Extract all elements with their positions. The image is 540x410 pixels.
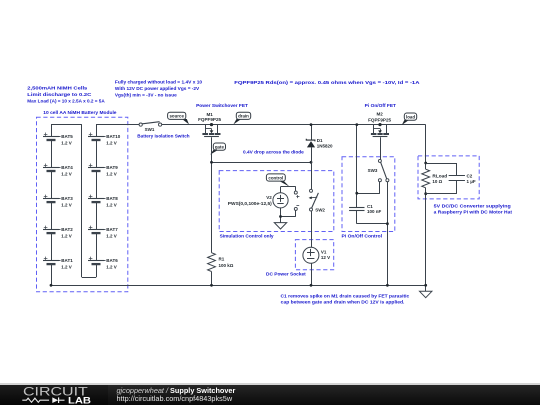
node SW3/C1 — [355, 192, 358, 195]
wire SW2 to V1 — [311, 211, 313, 247]
svg-text:PWS(0,0,100e-12,5): PWS(0,0,100e-12,5) — [228, 201, 273, 206]
flag control — [279, 181, 290, 187]
svg-text:control: control — [268, 175, 283, 180]
svg-text:1.2 V: 1.2 V — [106, 140, 117, 145]
svg-text:D1: D1 — [317, 138, 323, 143]
ground symbol main — [420, 291, 432, 297]
wire ground rail — [51, 285, 426, 287]
svg-text:Simulation Control only: Simulation Control only — [220, 234, 274, 239]
svg-text:1.2 V: 1.2 V — [61, 202, 72, 207]
svg-text:BAT4: BAT4 — [61, 165, 73, 170]
svg-text:12 V: 12 V — [321, 255, 330, 260]
wire rail corner down to RLoad — [425, 125, 427, 292]
svg-text:1.2 V: 1.2 V — [61, 171, 72, 176]
box: simulation control — [219, 171, 334, 232]
svg-text:Limit discharge to 0.2C: Limit discharge to 0.2C — [27, 92, 92, 97]
svg-text:BAT1: BAT1 — [61, 258, 73, 263]
svg-text:10 cell AA NiMH Battery Module: 10 cell AA NiMH Battery Module — [43, 110, 117, 115]
wire M1 gate down — [211, 137, 213, 252]
svg-text:2,500mAH NiMH Cells: 2,500mAH NiMH Cells — [27, 85, 87, 90]
capacitor C1 100nF — [349, 204, 381, 214]
svg-text:BAT3: BAT3 — [61, 196, 73, 201]
battery BAT9 — [88, 164, 118, 177]
svg-text:Pi On/Off Control: Pi On/Off Control — [342, 234, 383, 239]
svg-text:C1: C1 — [367, 204, 373, 209]
wire battery right column — [96, 125, 98, 261]
bar url — [117, 394, 233, 403]
svg-text:DC Power Socket: DC Power Socket — [266, 271, 306, 276]
wire R1 to ground rail — [211, 272, 213, 286]
battery BAT2 — [43, 226, 73, 239]
wire V1 to ground rail — [311, 263, 313, 285]
node C1 bottom — [386, 222, 389, 225]
switch SW3 — [368, 159, 389, 181]
svg-text:load: load — [406, 114, 415, 119]
ground V2 — [274, 223, 286, 229]
flag source — [182, 119, 189, 124]
svg-text:BAT6: BAT6 — [106, 258, 118, 263]
capacitor C2 1uF — [449, 173, 476, 184]
svg-text:BAT9: BAT9 — [106, 165, 118, 170]
bottom bar — [0, 385, 540, 405]
wire M2 gate to SW3 — [380, 137, 382, 159]
svg-text:M2: M2 — [376, 111, 383, 116]
node RLoad top — [424, 162, 427, 165]
svg-text:With 12V DC power applied Vgs: With 12V DC power applied Vgs = -2V — [115, 86, 200, 91]
svg-text:Battery Isolation Switch: Battery Isolation Switch — [137, 134, 189, 139]
box: DC/DC converter — [418, 156, 479, 199]
flag load — [402, 120, 410, 125]
svg-text:BAT7: BAT7 — [106, 227, 118, 232]
flag gate — [210, 150, 218, 155]
box: Pi on/off control — [342, 157, 395, 232]
svg-text:BAT2: BAT2 — [61, 227, 73, 232]
node gate/anode junctions — [210, 161, 213, 164]
svg-text:1 µF: 1 µF — [467, 179, 476, 184]
svg-text:SW1: SW1 — [145, 127, 155, 132]
node V2 bottom — [279, 215, 282, 218]
svg-text:BAT8: BAT8 — [106, 196, 118, 201]
wire top rail SW1 to corner — [162, 124, 426, 126]
wire gate to D1 anode — [212, 162, 312, 164]
bar title — [117, 387, 236, 394]
svg-text:RLoad: RLoad — [432, 173, 447, 178]
source V2 — [228, 193, 288, 208]
svg-text:5V DC/DC Converter supplying: 5V DC/DC Converter supplying — [434, 204, 511, 209]
battery BAT8 — [88, 195, 118, 208]
wire C1 bottom — [357, 211, 388, 224]
note: DC/DC converter — [434, 204, 513, 215]
svg-text:C2: C2 — [467, 173, 473, 178]
svg-text:R1: R1 — [219, 256, 225, 261]
box: battery module — [37, 117, 128, 292]
svg-text:gate: gate — [215, 144, 225, 149]
note: charge/Vgs — [115, 79, 203, 97]
svg-text:V2: V2 — [266, 195, 272, 200]
battery BAT1 — [43, 257, 73, 270]
wire SW3 right throw down — [387, 182, 389, 286]
transistor M1 FQPF9P25 — [198, 112, 221, 136]
svg-text:a Raspberry Pi with DC Motor H: a Raspberry Pi with DC Motor Hat — [434, 210, 513, 215]
svg-text:Power Switchover FET: Power Switchover FET — [196, 103, 248, 108]
battery BAT7 — [88, 226, 118, 239]
wire rail to D1 — [311, 125, 313, 140]
svg-text:1.2 V: 1.2 V — [106, 171, 117, 176]
wire V2 bottom loop — [281, 208, 296, 223]
svg-text:BAT10: BAT10 — [106, 134, 120, 139]
node rail/C1 — [355, 123, 358, 126]
svg-text:1.2 V: 1.2 V — [61, 264, 72, 269]
battery BAT5 — [43, 133, 73, 146]
svg-text:1.2 V: 1.2 V — [106, 264, 117, 269]
flag drain — [233, 119, 241, 124]
svg-text:V1: V1 — [321, 249, 327, 254]
svg-text:100 kΩ: 100 kΩ — [219, 263, 234, 268]
svg-text:LAB: LAB — [68, 395, 91, 405]
wire D1 to SW2 — [311, 147, 313, 189]
wire C2 branch — [426, 163, 457, 194]
switch SW2 (voltage controlled) — [309, 189, 326, 212]
svg-text:C1 removes spike on M1 drain c: C1 removes spike on M1 drain caused by F… — [281, 294, 410, 299]
resistor RLoad 10ohm — [422, 169, 448, 188]
battery BAT10 — [88, 133, 121, 146]
battery BAT4 — [43, 164, 73, 177]
svg-text:FQPF9P25: FQPF9P25 — [198, 117, 221, 122]
svg-text:10 Ω: 10 Ω — [432, 179, 442, 184]
svg-text:FQPF9P25 Rds(on) = approx. 0.4: FQPF9P25 Rds(on) = approx. 0.45 ohms whe… — [234, 80, 420, 85]
wire series link — [82, 125, 97, 278]
svg-text:1.2 V: 1.2 V — [106, 202, 117, 207]
svg-text:1.2 V: 1.2 V — [61, 233, 72, 238]
battery BAT6 — [88, 257, 118, 270]
svg-text:1.2 V: 1.2 V — [61, 140, 72, 145]
svg-text:Max Load (A) = 10 x 2.5A x 0.2: Max Load (A) = 10 x 2.5A x 0.2 = 5A — [27, 98, 105, 103]
wire rail to C1 column — [356, 125, 358, 208]
resistor R1 100k — [208, 253, 234, 272]
svg-text:Vgs(th) min = -3V - no issue: Vgs(th) min = -3V - no issue — [115, 92, 177, 97]
svg-text:0.4V drop across the diode: 0.4V drop across the diode — [243, 149, 304, 154]
svg-text:drain: drain — [238, 114, 249, 119]
wire top rail to SW1 — [96, 124, 139, 126]
note: C1 spike — [281, 294, 410, 305]
wire top rail left bridge — [51, 124, 82, 126]
note: battery cell limits — [27, 85, 105, 103]
svg-text:source: source — [169, 114, 184, 119]
wire battery left column — [51, 125, 53, 286]
svg-text:100 nF: 100 nF — [367, 209, 382, 214]
logo CIRCUIT LAB — [0, 385, 100, 406]
svg-text:SW2: SW2 — [315, 208, 325, 213]
transistor M2 FQPF9P25 — [368, 111, 391, 136]
battery BAT3 — [43, 195, 73, 208]
node RLoad bottom — [424, 192, 427, 195]
source V1 12V — [303, 247, 330, 263]
svg-text:Pi On/Off FET: Pi On/Off FET — [365, 103, 396, 108]
svg-text:1.2 V: 1.2 V — [106, 233, 117, 238]
control terminals of SW2 — [294, 191, 299, 210]
svg-text:SW3: SW3 — [368, 168, 378, 173]
wire SW3 left throw — [357, 182, 380, 194]
svg-text:cap between gate and drain whe: cap between gate and drain when DC 12V i… — [281, 300, 405, 305]
svg-text:1N5820: 1N5820 — [317, 143, 333, 148]
switch SW1 — [139, 122, 162, 133]
svg-text:FQPF9P25: FQPF9P25 — [368, 117, 391, 122]
box: DC power socket — [295, 240, 333, 270]
svg-text:BAT5: BAT5 — [61, 134, 73, 139]
node ground junctions — [50, 284, 428, 287]
diode D1 1N5820 — [306, 138, 333, 149]
node rail/D1 — [310, 123, 313, 126]
svg-text:Fully charged without load = 1: Fully charged without load = 1.4V x 10 — [115, 79, 203, 84]
wire V2 top to control terminal — [281, 187, 296, 193]
